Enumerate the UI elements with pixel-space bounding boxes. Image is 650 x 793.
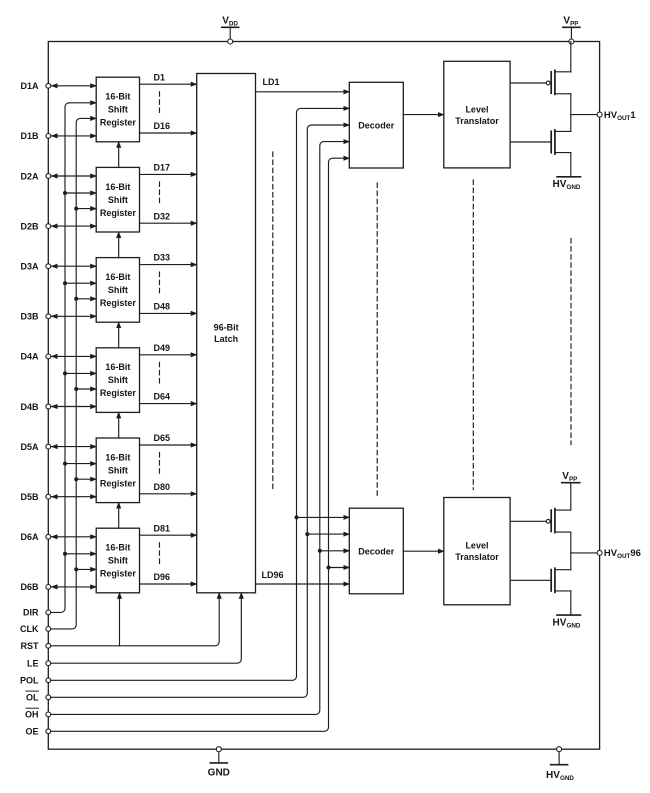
wire D1 (U1 to latch) <box>140 83 197 85</box>
wire DIR branch to U4 <box>65 372 96 374</box>
wire POL net (to both decoders) <box>51 108 350 680</box>
16-bit shift register U4 <box>96 348 139 413</box>
terminal D3A <box>20 262 50 272</box>
terminal D3B <box>20 312 50 322</box>
wire D6B bidirectional <box>52 586 97 588</box>
svg-text:16-Bit: 16-Bit <box>105 362 130 372</box>
wire shift chain U2 to U1 <box>118 142 120 168</box>
svg-text:Register: Register <box>100 478 137 488</box>
wire D2B bidirectional <box>52 225 97 227</box>
ground HVGND (upper output stage) <box>553 153 581 192</box>
terminal OL <box>26 691 51 703</box>
dashed continuation D33..D48 <box>159 272 161 295</box>
wire D1B bidirectional <box>52 135 97 137</box>
wire RST net (to U6 shift input and latch) <box>51 593 220 646</box>
dashed continuation D81..D96 <box>159 543 161 566</box>
svg-text:Shift: Shift <box>108 465 128 475</box>
decoder U8 (upper) <box>349 82 403 168</box>
dashed continuation (decoders) <box>376 183 378 497</box>
junction DIR at U3 <box>63 281 67 285</box>
wire shift chain U5 to U4 <box>118 412 120 438</box>
dashed continuation D49..D64 <box>159 362 161 385</box>
svg-text:DIR: DIR <box>23 608 39 618</box>
svg-text:Translator: Translator <box>455 552 499 562</box>
terminal D1A <box>20 81 50 91</box>
wire OL branch to lower decoder <box>307 533 349 535</box>
dashed continuation D17..D32 <box>159 182 161 205</box>
svg-text:Level: Level <box>465 105 488 115</box>
wire DIR branch to U5 <box>65 463 96 465</box>
svg-text:D6B: D6B <box>20 582 39 592</box>
wire Q1 source to VPP rail <box>570 42 572 72</box>
svg-text:D1B: D1B <box>20 131 39 141</box>
wire OH net (to both decoders) <box>51 142 350 715</box>
wire POL branch to lower decoder <box>297 516 350 518</box>
wire D65 (U5 to latch) <box>140 444 197 446</box>
svg-text:D1: D1 <box>154 72 166 82</box>
wire HVOUT1 tap <box>571 114 600 116</box>
terminal D4B <box>20 402 50 412</box>
ground HVGND (bottom rail) <box>546 749 574 782</box>
svg-text:16-Bit: 16-Bit <box>105 92 130 102</box>
svg-text:D3A: D3A <box>20 262 39 272</box>
svg-text:Shift: Shift <box>108 285 128 295</box>
svg-text:Register: Register <box>100 569 137 579</box>
node HVOUT1 on right boundary <box>597 112 602 117</box>
svg-text:GND: GND <box>208 768 230 779</box>
svg-text:D5A: D5A <box>20 442 39 452</box>
terminal D1B <box>20 131 50 141</box>
VPP supply symbol (top) <box>563 16 580 42</box>
wire CLK net (bus with branches to U1-U6) <box>51 118 96 629</box>
16-bit shift register U5 <box>96 438 139 503</box>
terminal D2B <box>20 221 50 231</box>
svg-text:LE: LE <box>27 659 39 669</box>
svg-text:D81: D81 <box>154 523 171 533</box>
svg-text:OH: OH <box>25 710 39 720</box>
terminal D5A <box>20 442 50 452</box>
svg-text:Register: Register <box>100 298 137 308</box>
dashed continuation D65..D80 <box>159 453 161 476</box>
junction CLK at U5 <box>74 477 78 481</box>
wire DIR branch to U3 <box>65 282 96 284</box>
svg-text:POL: POL <box>20 676 39 686</box>
wire D5B bidirectional <box>52 496 97 498</box>
terminal D6A <box>20 532 50 542</box>
node HVGND on bottom rail <box>557 747 562 752</box>
wire D48 (U3 to latch) <box>140 312 197 314</box>
svg-text:Register: Register <box>100 388 137 398</box>
svg-text:D2B: D2B <box>20 221 39 231</box>
wire U9 to U11 <box>403 550 444 552</box>
svg-text:D1A: D1A <box>20 81 39 91</box>
terminal POL <box>20 676 51 686</box>
junction CLK at U6 <box>74 567 78 571</box>
decoder U9 (lower) <box>349 508 403 594</box>
svg-text:D64: D64 <box>154 392 171 402</box>
svg-text:Translator: Translator <box>455 116 499 126</box>
wire D6A bidirectional <box>52 536 97 538</box>
svg-text:D4A: D4A <box>20 352 39 362</box>
svg-text:D48: D48 <box>154 302 171 312</box>
wire shift chain U6 to U5 <box>118 503 120 529</box>
svg-text:D4B: D4B <box>20 402 39 412</box>
wire DIR net (bus with branches to U1-U6) <box>51 103 96 613</box>
wire D49 (U4 to latch) <box>140 354 197 356</box>
wire D4B bidirectional <box>52 406 97 408</box>
svg-text:D65: D65 <box>154 433 171 443</box>
svg-text:16-Bit: 16-Bit <box>105 543 130 553</box>
ground HVGND (lower output stage) <box>553 591 581 630</box>
16-bit shift register U3 <box>96 258 139 323</box>
svg-text:D3B: D3B <box>20 312 39 322</box>
wire LE net (to latch) <box>51 593 242 663</box>
junction CLK at U4 <box>74 387 78 391</box>
wire D5A bidirectional <box>52 446 97 448</box>
16-bit shift register U2 <box>96 167 139 232</box>
node VPP on top rail <box>569 39 574 44</box>
junction CLK at U3 <box>74 297 78 301</box>
level translator U11 (lower) <box>444 498 510 605</box>
svg-text:D16: D16 <box>154 121 171 131</box>
wire OL net (to both decoders) <box>51 125 350 697</box>
terminal LE <box>27 659 51 669</box>
svg-text:Shift: Shift <box>108 375 128 385</box>
svg-text:D80: D80 <box>154 482 171 492</box>
ground GND (bottom rail) <box>208 749 230 778</box>
svg-text:Register: Register <box>100 118 137 128</box>
junction DIR at U5 <box>63 462 67 466</box>
svg-text:D96: D96 <box>154 572 171 582</box>
svg-text:OE: OE <box>25 727 38 737</box>
wire CLK branch to U4 <box>76 388 96 390</box>
junction DIR at U2 <box>63 191 67 195</box>
svg-text:OL: OL <box>26 693 39 703</box>
transistor Q3 (PMOS, high side) <box>510 509 571 553</box>
svg-text:D6A: D6A <box>20 532 39 542</box>
node GND on bottom rail <box>216 747 221 752</box>
dashed continuation (level translators) <box>472 180 474 490</box>
terminal CLK <box>20 624 51 634</box>
IC boundary box <box>48 42 599 750</box>
junction POL at lower decoder <box>295 515 299 519</box>
dashed continuation (latch outputs) <box>272 152 274 492</box>
wire OE branch to lower decoder <box>329 567 350 569</box>
transistor Q4 (NMOS, low side) <box>510 553 571 593</box>
svg-text:16-Bit: 16-Bit <box>105 182 130 192</box>
16-bit shift register U6 <box>96 528 139 593</box>
svg-text:Register: Register <box>100 208 137 218</box>
wire shift chain U3 to U2 <box>118 232 120 258</box>
junction OL at lower decoder <box>305 532 309 536</box>
VPP supply symbol (lower stage) <box>562 471 580 510</box>
svg-text:Latch: Latch <box>214 334 238 344</box>
dashed continuation (output stages) <box>570 239 572 445</box>
svg-text:16-Bit: 16-Bit <box>105 452 130 462</box>
wire D81 (U6 to latch) <box>140 534 197 536</box>
junction DIR at U4 <box>63 371 67 375</box>
wire CLK branch to U6 <box>76 568 96 570</box>
transistor Q2 (NMOS, low side) <box>510 115 571 155</box>
svg-text:D5B: D5B <box>20 492 39 502</box>
svg-text:Level: Level <box>465 541 488 551</box>
transistor Q1 (PMOS, high side) <box>510 70 571 114</box>
junction CLK at U2 <box>74 207 78 211</box>
svg-text:LD96: LD96 <box>262 570 284 580</box>
svg-text:CLK: CLK <box>20 624 39 634</box>
wire DIR branch to U6 <box>65 553 96 555</box>
svg-text:Shift: Shift <box>108 195 128 205</box>
terminal OH <box>25 708 51 720</box>
terminal D5B <box>20 492 50 502</box>
junction OH at lower decoder <box>318 549 322 553</box>
wire CLK branch to U2 <box>76 208 96 210</box>
terminal OE <box>25 727 50 737</box>
terminal D4A <box>20 352 50 362</box>
wire U8 to U10 <box>403 114 444 116</box>
dashed continuation D1..D16 <box>159 92 161 115</box>
junction OE at lower decoder <box>327 566 331 570</box>
wire D1A bidirectional <box>52 85 97 87</box>
wire DIR branch to U2 <box>65 192 96 194</box>
svg-text:D2A: D2A <box>20 171 39 181</box>
wire shift chain U4 to U3 <box>118 322 120 348</box>
wire LD1 (latch to upper decoder) <box>256 91 350 93</box>
wire D2A bidirectional <box>52 175 97 177</box>
wire RST riser to U6 <box>119 593 121 646</box>
svg-text:96-Bit: 96-Bit <box>214 322 239 332</box>
terminal D2A <box>20 171 50 181</box>
wire D33 (U3 to latch) <box>140 264 197 266</box>
wire D32 (U2 to latch) <box>140 222 197 224</box>
svg-text:D33: D33 <box>154 253 171 263</box>
svg-text:Shift: Shift <box>108 105 128 115</box>
wire D3A bidirectional <box>52 265 97 267</box>
svg-text:D32: D32 <box>154 211 171 221</box>
wire HVOUT96 tap <box>571 552 600 554</box>
16-bit shift register U1 <box>96 77 139 142</box>
svg-text:16-Bit: 16-Bit <box>105 272 130 282</box>
wire D16 (U1 to latch) <box>140 132 197 134</box>
96-bit latch U7 <box>197 74 256 593</box>
level translator U10 (upper) <box>444 61 510 168</box>
node HVOUT96 on right boundary <box>597 550 602 555</box>
svg-text:Shift: Shift <box>108 556 128 566</box>
wire OE net (to both decoders) <box>51 158 350 731</box>
node VDD on top rail <box>228 39 233 44</box>
wire CLK branch to U3 <box>76 298 96 300</box>
svg-text:Decoder: Decoder <box>358 546 395 556</box>
terminal RST <box>21 641 51 651</box>
terminal D6B <box>20 582 50 592</box>
wire D3B bidirectional <box>52 315 97 317</box>
wire D4A bidirectional <box>52 355 97 357</box>
svg-text:Decoder: Decoder <box>358 121 395 131</box>
wire D96 (U6 to latch) <box>140 583 197 585</box>
wire D80 (U5 to latch) <box>140 493 197 495</box>
wire OH branch to lower decoder <box>320 550 350 552</box>
junction DIR at U6 <box>63 552 67 556</box>
svg-text:RST: RST <box>21 641 40 651</box>
wire LD96 (latch to lower decoder) <box>256 583 350 585</box>
svg-text:D17: D17 <box>154 163 171 173</box>
wire D17 (U2 to latch) <box>140 173 197 175</box>
wire CLK branch to U5 <box>76 478 96 480</box>
terminal DIR <box>23 608 51 618</box>
wire D64 (U4 to latch) <box>140 403 197 405</box>
svg-text:D49: D49 <box>154 343 171 353</box>
VDD supply symbol <box>222 16 239 42</box>
svg-text:LD1: LD1 <box>263 77 280 87</box>
